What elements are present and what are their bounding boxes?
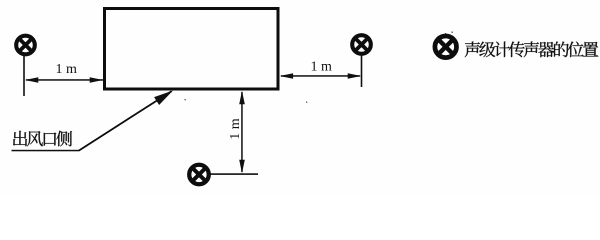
leader line to equipment: [79, 91, 172, 150]
right microphone stem line: [361, 55, 363, 88]
svg-text:1 m: 1 m: [311, 60, 333, 75]
microphone symbol left: [16, 36, 35, 55]
left dimension line 1 m: [26, 79, 103, 81]
vertical dimension line 1 m: [241, 92, 243, 172]
equipment outline rectangle: [105, 9, 279, 90]
leader arrowhead: [154, 91, 173, 106]
legend text 声级计传声器的位置: [465, 41, 599, 57]
svg-text:1 m: 1 m: [56, 62, 78, 77]
right dimension line 1 m: [281, 75, 360, 77]
bottom microphone baseline: [211, 173, 259, 175]
scan speckles: [185, 32, 453, 103]
svg-text:1 m: 1 m: [228, 118, 243, 140]
microphone symbol bottom: [189, 165, 209, 185]
left microphone stem line: [23, 55, 25, 96]
label air outlet side 出风口侧: [13, 131, 72, 147]
legend microphone symbol: [435, 36, 457, 58]
leader underline for air-outlet label: [12, 150, 80, 152]
microphone symbol right: [352, 35, 371, 54]
